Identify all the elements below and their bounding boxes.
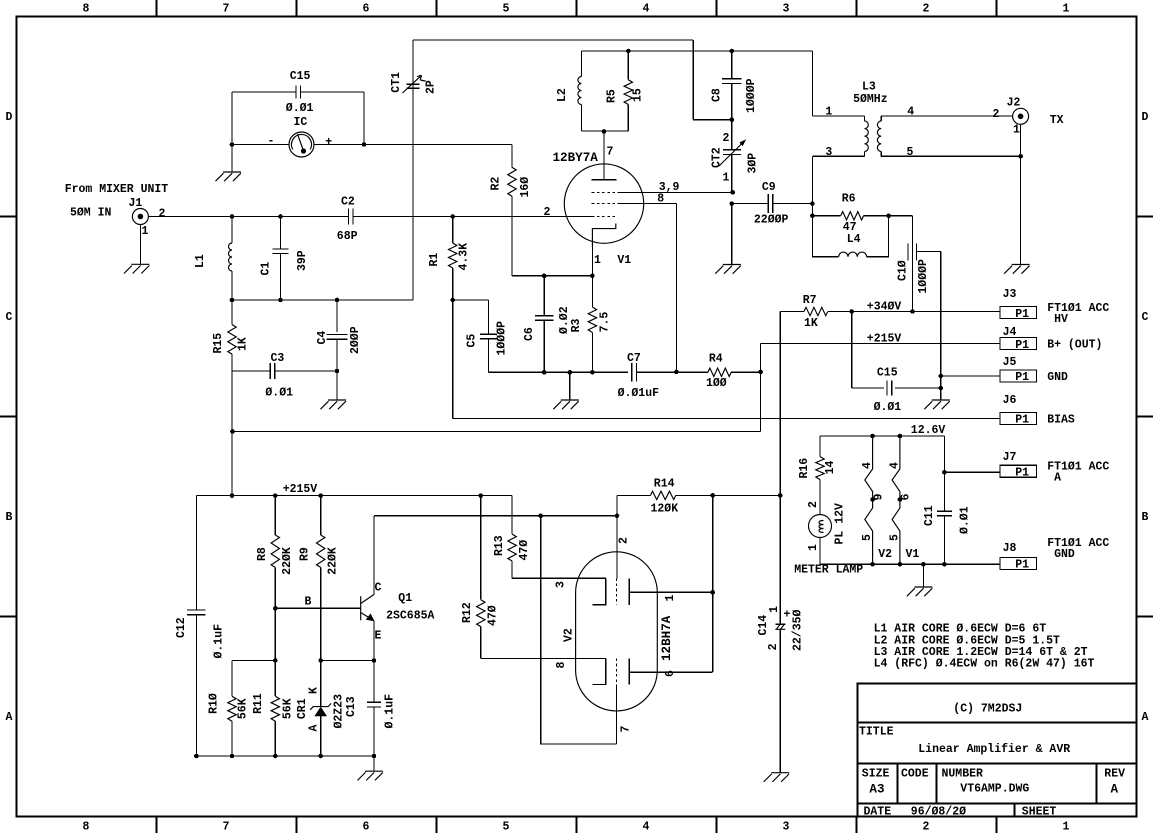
svg-text:4: 4 [907, 106, 914, 119]
svg-text:REV: REV [1104, 768, 1125, 781]
svg-text:B+ (OUT): B+ (OUT) [1047, 338, 1102, 351]
svg-text:1ØØØP: 1ØØØP [917, 259, 930, 294]
svg-text:5: 5 [888, 534, 901, 541]
svg-text:1: 1 [1063, 821, 1070, 833]
wire base line [273, 606, 278, 611]
svg-text:39P: 39P [296, 250, 309, 271]
svg-text:J3: J3 [1003, 288, 1017, 301]
V1 pin 7 stub [603, 132, 605, 180]
wire L3 pin5 line [881, 155, 1020, 157]
resistor R10 [231, 661, 233, 697]
ground under C14 [764, 773, 790, 782]
capacitor C14 electrolytic [779, 495, 781, 624]
capacitor C6 [543, 276, 545, 316]
svg-text:PL 12V: PL 12V [834, 503, 847, 545]
connector J2 TX [1013, 108, 1029, 124]
node L1 top [230, 214, 235, 219]
svg-text:A: A [1111, 783, 1119, 797]
wire 3,9 line [617, 191, 732, 193]
svg-text:1: 1 [594, 254, 601, 267]
svg-text:2: 2 [807, 501, 820, 508]
svg-text:L1: L1 [194, 254, 207, 268]
wire BIAS rail y=418.5 [453, 418, 1000, 420]
wire y=119.7 to C8 [693, 119, 732, 121]
capacitor C11 [943, 436, 945, 511]
svg-text:HV: HV [1047, 313, 1068, 326]
svg-text:5ØM IN: 5ØM IN [70, 207, 112, 220]
wire V2 pin7 stub [615, 684, 617, 744]
svg-text:C: C [375, 582, 382, 595]
svg-text:J7: J7 [1003, 451, 1017, 464]
capacitor C5 [453, 299, 489, 301]
svg-text:DATE: DATE [864, 806, 892, 819]
wire 8 line [617, 203, 676, 205]
svg-text:CODE: CODE [901, 768, 929, 781]
svg-text:BIAS: BIAS [1047, 413, 1075, 426]
svg-text:P1: P1 [1015, 559, 1029, 572]
node meter line at C15 leg [230, 142, 235, 147]
svg-text:GND: GND [1047, 548, 1075, 561]
svg-text:J1: J1 [129, 197, 143, 210]
capacitor C10 [912, 216, 914, 312]
svg-text:P1: P1 [1015, 371, 1029, 384]
capacitor C4 [336, 300, 338, 332]
svg-text:2: 2 [923, 821, 930, 833]
capacitor C7 [631, 363, 633, 382]
V1 control grid dashed [592, 216, 618, 218]
svg-text:8: 8 [83, 3, 90, 16]
svg-text:-: - [268, 135, 275, 148]
svg-text:4: 4 [888, 462, 901, 469]
svg-text:A: A [1142, 711, 1149, 724]
svg-text:12BY7A: 12BY7A [553, 151, 599, 165]
svg-text:7.5: 7.5 [599, 312, 612, 333]
capacitor C8 [731, 51, 733, 79]
svg-text:1: 1 [825, 106, 832, 119]
ground under C15/J5 [924, 400, 950, 409]
capacitor C3 [232, 370, 270, 372]
svg-text:J4: J4 [1003, 326, 1017, 339]
svg-text:R16: R16 [798, 458, 811, 479]
svg-text:GND: GND [1047, 371, 1068, 384]
V1 cathode [592, 224, 615, 248]
svg-text:C8: C8 [710, 88, 723, 102]
resistor R11 [274, 661, 276, 697]
connector J6 [1000, 413, 1037, 425]
wire J1 ground stem [139, 225, 141, 265]
svg-text:1: 1 [768, 606, 781, 613]
transformer L3 primary [864, 116, 866, 121]
svg-text:4.3K: 4.3K [458, 243, 471, 271]
svg-text:SIZE: SIZE [862, 768, 890, 781]
lamp PL 12V [809, 515, 832, 538]
transistor Q1 2SC685A [361, 595, 375, 622]
resistor R3 [591, 276, 593, 307]
svg-text:R2: R2 [490, 177, 503, 191]
inductor L4 (RFC) loop [812, 216, 838, 257]
V2 upper grid dashed [615, 578, 617, 605]
svg-text:B: B [305, 596, 312, 609]
resistor R5 [627, 51, 629, 80]
svg-text:5: 5 [861, 534, 874, 541]
svg-text:J5: J5 [1003, 356, 1017, 369]
svg-text:IC: IC [294, 116, 308, 129]
svg-text:L4: L4 [847, 233, 861, 246]
svg-text:9: 9 [872, 494, 885, 501]
svg-text:3: 3 [555, 581, 568, 588]
ground under heater rail [907, 587, 933, 596]
wire C2 to V1 grid [353, 216, 591, 218]
svg-text:4: 4 [861, 462, 874, 469]
svg-text:TITLE: TITLE [859, 726, 894, 739]
svg-text:15: 15 [632, 88, 645, 102]
wire C15 right leg down [363, 92, 365, 145]
svg-text:P1: P1 [1015, 414, 1029, 427]
wire AVR ground rail y=756 [196, 755, 374, 757]
connector J5 [1000, 370, 1037, 382]
resistor R13 [511, 496, 513, 534]
svg-text:A: A [1047, 472, 1061, 485]
svg-text:56K: 56K [237, 698, 250, 719]
wire B+ OUT line y=343.6 [761, 343, 1001, 345]
V1 screen grid dashed [592, 191, 618, 193]
V2 lower cathode [592, 659, 605, 685]
svg-text:3: 3 [825, 146, 832, 159]
wire L3 pin1 leg [811, 51, 813, 116]
svg-text:C5: C5 [466, 334, 479, 348]
CT1 arrow [403, 75, 426, 93]
svg-text:C15: C15 [290, 70, 311, 83]
svg-text:1: 1 [1063, 3, 1070, 16]
svg-text:R7: R7 [803, 294, 817, 307]
V2 lower grid dashed [615, 659, 617, 685]
svg-text:7: 7 [223, 3, 230, 16]
svg-text:SHEET: SHEET [1022, 806, 1057, 819]
wire top rail y=40 [413, 39, 693, 41]
wire R6 node to C10 top [889, 215, 913, 217]
wire C15 left leg down to ground [231, 92, 233, 172]
transformer L3 secondary [880, 116, 882, 121]
svg-text:6: 6 [900, 494, 913, 501]
svg-text:68P: 68P [337, 230, 358, 243]
svg-text:J8: J8 [1003, 542, 1017, 555]
svg-text:Ø.Ø1: Ø.Ø1 [265, 387, 293, 400]
svg-text:L3: L3 [862, 81, 876, 94]
svg-text:P1: P1 [1015, 339, 1029, 352]
wire R8 to divider node [274, 608, 276, 660]
wire heater ground stem [922, 564, 924, 587]
resistor R6 [812, 215, 840, 217]
wire cathode ground line y=372.3 [489, 371, 628, 373]
svg-text:+: + [325, 136, 332, 149]
svg-text:From MIXER UNIT: From MIXER UNIT [65, 183, 169, 196]
ground at cathode line [569, 372, 571, 400]
trimmer capacitor CT1 [407, 83, 420, 85]
wire C10 right plate lead [917, 251, 941, 253]
svg-text:R15: R15 [212, 333, 225, 354]
svg-text:1ØØØP: 1ØØØP [745, 78, 758, 113]
svg-text:22ØK: 22ØK [327, 547, 340, 575]
svg-text:C: C [1142, 311, 1149, 324]
svg-text:B: B [6, 511, 13, 524]
CT2 arrow [719, 140, 746, 166]
resistor R7 [780, 311, 804, 313]
svg-text:C3: C3 [271, 352, 285, 365]
svg-text:2ØØP: 2ØØP [349, 326, 362, 354]
svg-text:P1: P1 [1015, 467, 1029, 480]
svg-text:6: 6 [363, 821, 370, 833]
connector J4 [1000, 338, 1037, 350]
svg-text:2: 2 [923, 3, 930, 16]
svg-text:R6: R6 [842, 193, 856, 206]
resistor R8 [274, 496, 276, 535]
svg-text:6: 6 [664, 670, 677, 677]
svg-text:Ø.Ø1: Ø.Ø1 [959, 506, 972, 534]
svg-text:TX: TX [1050, 114, 1064, 127]
resistor R9 [320, 496, 322, 535]
resistor R1 [452, 217, 454, 244]
svg-text:R8: R8 [256, 547, 269, 561]
svg-text:R12: R12 [461, 602, 474, 623]
svg-text:Ø.Ø1uF: Ø.Ø1uF [618, 387, 660, 400]
svg-text:J6: J6 [1003, 394, 1017, 407]
wire node rail y=300 [232, 299, 413, 301]
wire C4 ground stem [336, 371, 338, 400]
trimmer capacitor CT2 [731, 120, 733, 150]
svg-text:1ØØØP: 1ØØØP [496, 321, 509, 356]
svg-text:+34ØV: +34ØV [867, 301, 902, 314]
svg-text:C9: C9 [762, 181, 776, 194]
inductor L2 [580, 51, 582, 77]
svg-text:Ø.1uF: Ø.1uF [383, 694, 396, 729]
svg-text:22ØØP: 22ØØP [754, 214, 789, 227]
svg-text:7: 7 [223, 821, 230, 833]
capacitor C2 [348, 209, 350, 225]
svg-text:C7: C7 [627, 352, 641, 365]
svg-text:1K: 1K [237, 337, 250, 351]
svg-text:CT2: CT2 [710, 147, 723, 168]
svg-text:+: + [784, 609, 791, 622]
svg-text:NUMBER: NUMBER [942, 768, 984, 781]
capacitor C9 [732, 203, 768, 205]
ground under CT2 [715, 265, 741, 274]
wire top rail corner down x=693 [692, 40, 694, 120]
svg-text:R9: R9 [299, 547, 312, 561]
svg-text:1: 1 [723, 172, 730, 185]
svg-text:Ø.1uF: Ø.1uF [212, 624, 225, 659]
svg-text:A: A [307, 725, 320, 732]
wire R1 bottom to bias rail corner [452, 300, 454, 419]
node R1 top [450, 214, 455, 219]
svg-text:A: A [6, 711, 13, 724]
svg-text:2: 2 [159, 208, 166, 221]
svg-text:14: 14 [824, 460, 837, 474]
capacitor C12 [195, 496, 197, 610]
svg-text:2: 2 [723, 132, 730, 145]
svg-text:B: B [1142, 511, 1149, 524]
svg-text:J2: J2 [1007, 97, 1021, 110]
wire emitter node segment [321, 660, 374, 662]
wire R14 left leg to pin2 node [616, 495, 618, 578]
resistor R14 [617, 494, 651, 496]
svg-text:1K: 1K [804, 317, 818, 330]
svg-text:C11: C11 [923, 505, 936, 526]
ground under J1 [124, 264, 150, 273]
svg-text:CT1: CT1 [390, 72, 403, 93]
wire pin7 to grid return [541, 516, 617, 744]
svg-text:5: 5 [503, 3, 510, 16]
wire 12.6V rail [820, 435, 944, 437]
connector J3 [1000, 307, 1037, 319]
svg-text:R14: R14 [654, 478, 675, 491]
wire CT1 vertical x=413 [412, 40, 414, 300]
resistor R12 [480, 496, 482, 600]
ground under meter line [216, 172, 242, 181]
wire B+ rail y=431.5 [232, 431, 761, 433]
svg-text:CR1: CR1 [296, 698, 309, 719]
connector J1 50M IN [132, 209, 148, 225]
wire V1 pin1 lead [591, 247, 593, 276]
capacitor C15 (B+ bypass) [851, 312, 853, 389]
svg-text:+215V: +215V [283, 483, 318, 496]
ground under J2 [1004, 265, 1030, 274]
wire R15 leg to +215 rail [231, 371, 233, 496]
wire divider node segment [232, 660, 275, 662]
svg-text:22ØK: 22ØK [281, 547, 294, 575]
svg-text:Q1: Q1 [398, 592, 412, 605]
connector J8 [1000, 558, 1037, 570]
coil winding notes [874, 623, 1095, 671]
svg-text:6: 6 [363, 3, 370, 16]
svg-text:5: 5 [503, 821, 510, 833]
svg-text:12BH7A: 12BH7A [660, 615, 674, 661]
svg-text:1: 1 [664, 595, 677, 602]
ground under AVR rail [358, 771, 384, 780]
svg-text:8: 8 [83, 821, 90, 833]
svg-text:R3: R3 [570, 318, 583, 332]
svg-text:V2: V2 [878, 548, 892, 561]
svg-text:+215V: +215V [867, 333, 902, 346]
wire meter line y=144.5 [232, 144, 289, 146]
svg-text:C1Ø: C1Ø [897, 260, 910, 281]
meter IC [289, 132, 314, 157]
svg-text:C15: C15 [877, 367, 898, 380]
wire R2 bottom to C6/R3 [512, 275, 592, 277]
svg-text:4: 4 [643, 3, 650, 16]
V2 lower plate [628, 659, 630, 685]
svg-text:5ØMHz: 5ØMHz [853, 93, 888, 106]
svg-text:5: 5 [907, 146, 914, 159]
tube V2 12BH7A envelope [576, 552, 658, 711]
zener diode CR1 02Z23 [320, 661, 322, 707]
svg-text:1: 1 [807, 544, 820, 551]
svg-text:2: 2 [618, 537, 631, 544]
node R6 left [810, 214, 815, 219]
svg-text:L4 (RFC) Ø.4ECW on R6(2W 47) 1: L4 (RFC) Ø.4ECW on R6(2W 47) 16T [874, 658, 1095, 671]
wire 8 line vertical [675, 204, 677, 372]
svg-text:2: 2 [767, 643, 780, 650]
svg-text:R5: R5 [606, 89, 619, 103]
svg-text:1ØØ: 1ØØ [706, 377, 727, 390]
svg-text:1: 1 [1013, 124, 1020, 137]
wire L3 pin4 to J2 [881, 115, 1012, 117]
resistor R16 [819, 436, 821, 457]
svg-text:METER LAMP: METER LAMP [794, 564, 863, 577]
V1 suppressor grid dashed [592, 203, 618, 205]
svg-text:C2: C2 [341, 196, 355, 209]
svg-text:Ø.Ø1: Ø.Ø1 [874, 401, 902, 414]
svg-text:V1: V1 [617, 254, 631, 267]
svg-text:47Ø: 47Ø [518, 540, 531, 561]
svg-text:E: E [375, 630, 382, 643]
wire rail y=51 [581, 50, 812, 52]
wire CT1 bottom leg [412, 217, 414, 301]
resistor R2 [511, 145, 513, 168]
ground under C4 [321, 400, 347, 409]
wire J2 shell to ground [1020, 124, 1022, 264]
connector J7 [1000, 465, 1037, 477]
heater V2 [865, 436, 873, 500]
svg-text:C14: C14 [757, 615, 770, 636]
svg-text:56K: 56K [281, 698, 294, 719]
svg-text:C1: C1 [260, 262, 273, 276]
wire CT2 to ground [731, 204, 733, 265]
resistor R4 [708, 368, 731, 376]
svg-text:A3: A3 [869, 783, 884, 797]
wire R4 node up to B+ line [760, 344, 762, 372]
V2 upper cathode [592, 578, 605, 605]
svg-text:R1Ø: R1Ø [207, 693, 220, 714]
svg-text:22/35Ø: 22/35Ø [791, 609, 804, 651]
svg-text:C12: C12 [175, 617, 188, 638]
svg-text:R13: R13 [493, 535, 506, 556]
svg-text:Ø2Z23: Ø2Z23 [332, 694, 345, 729]
wire R7 left leg down [779, 312, 781, 496]
wire plates tie vertical [712, 495, 714, 672]
wire J5 line [941, 375, 1000, 377]
svg-text:VT6AMP.DWG: VT6AMP.DWG [960, 783, 1029, 796]
svg-text:C6: C6 [523, 327, 536, 341]
svg-text:C13: C13 [345, 696, 358, 717]
svg-text:3ØP: 3ØP [746, 153, 759, 174]
V2 upper plate [628, 578, 630, 605]
svg-text:Ø.Ø1: Ø.Ø1 [286, 102, 314, 115]
V1 plate [592, 179, 617, 181]
svg-text:16Ø: 16Ø [519, 177, 532, 198]
capacitor C1 [280, 217, 282, 250]
svg-text:2: 2 [544, 206, 551, 219]
wire V2 pin8 line [481, 658, 606, 660]
svg-text:3: 3 [783, 3, 790, 16]
wire V2 pin3 line [512, 577, 606, 579]
wire grid line J1 to C2 [148, 216, 348, 218]
wire V2 pin2 stub [616, 516, 618, 579]
svg-text:47Ø: 47Ø [486, 605, 499, 626]
node C1 top [278, 214, 283, 219]
svg-text:K: K [307, 687, 320, 694]
svg-text:L2: L2 [556, 88, 569, 102]
svg-text:P1: P1 [1015, 308, 1029, 321]
wire heater ground rail [820, 563, 1000, 565]
wire rail2 corner up [760, 372, 762, 432]
capacitor C15 (meter bypass) [232, 91, 296, 93]
svg-text:1: 1 [142, 225, 149, 238]
svg-text:V1: V1 [906, 548, 920, 561]
wire Q1 collector up [373, 516, 375, 595]
wire +215V rail y=495.6 [196, 495, 512, 497]
wire V2 plate1 lead [629, 591, 713, 593]
svg-text:2P: 2P [425, 80, 438, 94]
